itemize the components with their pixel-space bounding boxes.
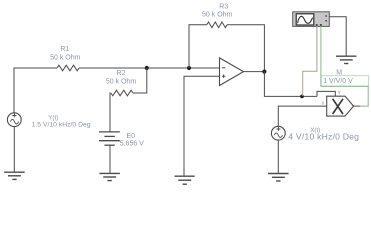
op-amp U1 (220, 58, 244, 86)
source Y(t) sine source (7, 113, 90, 129)
wire X(t) to ground (277, 140, 279, 173)
wire main net left segment (14, 67, 58, 69)
wire multiplier X input from X(t) (278, 106, 326, 126)
resistor R3 (202, 4, 233, 28)
resistor R1 (50, 46, 81, 71)
svg-text:4 V/10 kHz/0 Deg: 4 V/10 kHz/0 Deg (288, 132, 359, 142)
svg-text:E0: E0 (127, 133, 136, 140)
svg-text:1.5 V/10 kHz/0 Deg: 1.5 V/10 kHz/0 Deg (32, 121, 91, 128)
wire scope to ground (329, 17, 346, 56)
svg-text:50 k Ohm: 50 k Ohm (50, 54, 81, 61)
wire output down and right toward multiplier (264, 72, 317, 97)
svg-text:50 k Ohm: 50 k Ohm (106, 79, 137, 86)
ground under Y(t) (4, 172, 25, 179)
ground under X(t) (268, 174, 289, 182)
svg-text:x: x (322, 100, 325, 106)
wire op-amp plus input (184, 76, 220, 175)
svg-text:R2: R2 (117, 70, 126, 77)
svg-text:R1: R1 (60, 46, 69, 53)
ground under op-amp plus input (175, 176, 195, 184)
wire probe B (green) scope to multiplier output (321, 26, 368, 106)
oscilloscope XSC1 (293, 12, 330, 27)
svg-text:50 k Ohm: 50 k Ohm (202, 11, 233, 18)
wire multiplier output lead (354, 105, 361, 107)
node junction dot at R3 tap (187, 66, 191, 70)
wire step up to multiplier Y pin (317, 91, 335, 96)
battery E0 (99, 132, 144, 148)
wire R3 right vertical to output node (263, 24, 265, 71)
wire R3 top right segment (227, 24, 264, 26)
node junction dot at R2 tap (145, 66, 149, 70)
wire R2 branch from junction down and left (133, 68, 147, 93)
ground under scope wire (336, 56, 357, 63)
wire R3 branch left vertical (188, 25, 190, 68)
wire op-amp output (244, 71, 265, 73)
wire main net right segment to op-amp (79, 67, 220, 69)
svg-text:Y(t): Y(t) (48, 114, 58, 121)
ground under E0 (99, 173, 120, 180)
wire R3 top left segment (189, 24, 207, 26)
node junction dot at probe A tap (300, 95, 304, 99)
svg-text:R3: R3 (219, 4, 228, 11)
source X(t) sine source (271, 126, 359, 141)
wire probe A (tan) scope to output node (303, 26, 317, 96)
wire left vertical from Y(t) to main net (13, 68, 15, 113)
wire Y(t) to ground (13, 127, 15, 172)
wire R2 to battery E0 (109, 93, 112, 132)
resistor R2 (106, 70, 137, 96)
svg-text:1 V/V/0 V: 1 V/V/0 V (323, 78, 353, 85)
svg-text:5.656 V: 5.656 V (120, 140, 144, 147)
node junction dot at op-amp output (262, 70, 266, 74)
multiplier M (321, 69, 368, 116)
wire battery to ground (109, 145, 111, 173)
